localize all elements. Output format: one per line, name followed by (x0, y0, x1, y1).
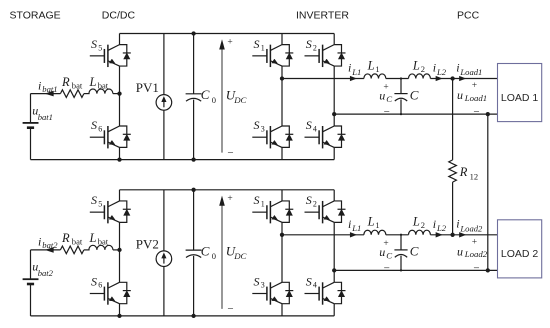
wire: L2 to LOAD 2 (430, 234, 497, 236)
annotation arrow U_DC (circuit 2) (220, 197, 224, 309)
node: battery return on bottom rail (circuit 1) (117, 157, 121, 161)
wire: between L1 and L2 (circuit 2) (386, 234, 409, 236)
svg-text:i: i (456, 60, 459, 74)
svg-text:i: i (433, 61, 436, 75)
PV current source PV2 (156, 190, 172, 316)
svg-text:S: S (254, 193, 260, 207)
inductor L_bat (circuit 2) (89, 245, 113, 250)
capacitor C0 (circuit 1) (186, 34, 202, 160)
svg-text:L2: L2 (436, 223, 447, 233)
wire: battery branch horizontal (circuit 1) (31, 93, 120, 95)
node: C0 top junction (circuit 2) (191, 188, 195, 192)
wire: + output from left leg to L1 (circuit 2) (282, 234, 364, 236)
node: return interconnect junction (circuit 1) (486, 112, 490, 116)
current arrow i_L1 (circuit 2) (350, 233, 355, 237)
svg-text:PCC: PCC (457, 10, 480, 22)
filter capacitor C (circuit 2) (394, 235, 407, 271)
label U_DC (circuit 2) (226, 244, 247, 262)
svg-text:2: 2 (421, 64, 425, 74)
label U_DC (circuit 1) (226, 87, 247, 105)
label L_2 (circuit 1) (412, 58, 425, 74)
svg-text:L2: L2 (436, 67, 447, 77)
node: C top junction (circuit 1) (400, 77, 402, 79)
svg-text:0: 0 (212, 251, 216, 261)
svg-text:−: − (227, 303, 233, 315)
inductor L1 (circuit 2) (364, 230, 386, 235)
inductor L2 (circuit 2) (409, 230, 431, 235)
transistor S5 (circuit 2) (IGBT with antiparallel diode) (90, 190, 131, 250)
wire: battery left vertical (circuit 1) (30, 94, 32, 160)
node: C0 top junction (circuit 1) (191, 31, 195, 35)
label u_bat2 (32, 260, 53, 279)
label S<sub>6</sub> for S6 (circuit 2) (91, 274, 102, 289)
svg-text:S: S (91, 193, 97, 207)
label i_L1 (circuit 2) (348, 217, 361, 233)
svg-text:INVERTER: INVERTER (296, 10, 349, 22)
wire: battery branch horizontal (circuit 2) (31, 249, 120, 251)
PV current source PV1 (156, 34, 172, 160)
current arrow i_L2 (circuit 1) (436, 77, 441, 81)
svg-text:−: − (384, 106, 390, 118)
node: C bottom junction (circuit 2) (400, 269, 402, 271)
label R_bat (circuit 1) (61, 75, 83, 91)
node: C0 bottom junction (circuit 2) (191, 314, 195, 318)
svg-text:L: L (89, 231, 97, 245)
node: return interconnect junction (circuit 2) (486, 268, 490, 272)
svg-text:L1: L1 (351, 67, 361, 77)
label u_bat1 (32, 103, 53, 122)
label R_bat (circuit 2) (61, 231, 83, 247)
label S<sub>3</sub> for S3 (circuit 1) (254, 118, 265, 133)
svg-text:R: R (61, 231, 70, 245)
node: C bottom junction (circuit 1) (400, 113, 402, 115)
svg-text:R: R (61, 75, 70, 89)
svg-text:−: − (473, 106, 479, 118)
svg-text:bat: bat (98, 80, 109, 90)
node: inverter right-leg midpoint (circuit 1) (332, 112, 336, 116)
transistor S1 (circuit 1) (IGBT with antiparallel diode) (252, 34, 293, 79)
load box LOAD 2 (498, 220, 542, 278)
label L_bat (circuit 1) (89, 75, 109, 91)
capacitor C0 (circuit 2) (186, 190, 202, 316)
label S<sub>5</sub> for S5 (circuit 2) (91, 193, 102, 208)
node: battery return on bottom rail (circuit 2) (117, 314, 121, 318)
svg-text:S: S (91, 274, 97, 288)
label S<sub>3</sub> for S3 (circuit 2) (254, 274, 265, 289)
svg-text:Load2: Load2 (464, 249, 488, 259)
label C_0 (circuit 1) (201, 87, 216, 105)
inductor L2 (circuit 1) (409, 74, 431, 79)
svg-text:S: S (306, 193, 312, 207)
node: inverter left-leg midpoint (circuit 1) (280, 76, 284, 80)
resistor R12 connecting the two PCC nodes (449, 79, 457, 235)
label S<sub>2</sub> for S2 (circuit 2) (306, 193, 317, 208)
node: C0 bottom junction (circuit 1) (191, 157, 195, 161)
transistor S1 (circuit 2) (IGBT with antiparallel diode) (252, 190, 293, 235)
current arrow i_L2 (circuit 2) (436, 233, 441, 237)
svg-text:L: L (412, 58, 420, 72)
battery u_bat1 (23, 123, 39, 128)
transistor S6 (circuit 2) (IGBT with antiparallel diode) (90, 250, 131, 316)
svg-text:i: i (348, 61, 351, 75)
svg-text:i: i (433, 217, 436, 231)
svg-text:C: C (386, 251, 392, 261)
svg-text:u: u (379, 245, 385, 259)
svg-text:3: 3 (261, 281, 265, 290)
svg-text:L: L (89, 75, 97, 89)
node: inverter right-leg midpoint (circuit 2) (332, 268, 336, 272)
svg-text:LOAD 1: LOAD 1 (501, 92, 539, 104)
svg-text:STORAGE: STORAGE (10, 10, 61, 22)
svg-text:bat2: bat2 (42, 240, 58, 250)
svg-text:R: R (459, 165, 468, 179)
svg-text:S: S (306, 118, 312, 132)
node: C top junction (circuit 2) (400, 234, 402, 236)
wire: load return interconnect between circuits (487, 114, 489, 270)
svg-text:−: − (384, 263, 390, 275)
svg-text:Load2: Load2 (459, 223, 483, 233)
label S<sub>6</sub> for S6 (circuit 1) (91, 118, 102, 133)
svg-text:S: S (254, 118, 260, 132)
svg-text:Load1: Load1 (459, 67, 482, 77)
wire: return wire right leg to LOAD 1 (334, 113, 497, 115)
svg-text:5: 5 (98, 200, 102, 209)
transistor S3 (circuit 2) (IGBT with antiparallel diode) (252, 235, 293, 316)
label C_0 (circuit 2) (201, 244, 216, 262)
node: DC/DC midpoint (circuit 2) (117, 248, 121, 252)
svg-text:1: 1 (261, 43, 265, 52)
label S<sub>1</sub> for S1 (circuit 2) (254, 193, 265, 208)
svg-text:S: S (91, 37, 97, 51)
label S<sub>2</sub> for S2 (circuit 1) (306, 37, 317, 52)
svg-text:S: S (306, 37, 312, 51)
wire: bottom DC rail (circuit 1) (31, 159, 335, 161)
label S<sub>4</sub> for S4 (circuit 1) (306, 118, 317, 133)
svg-text:bat: bat (98, 237, 109, 247)
wire: + output from left leg to L1 (circuit 1) (282, 78, 364, 80)
svg-text:PV2: PV2 (136, 237, 159, 252)
label i_L2 (circuit 1) (433, 61, 447, 77)
label i_L1 (circuit 1) (348, 61, 361, 77)
svg-text:L: L (367, 215, 375, 229)
svg-text:+: + (472, 81, 477, 91)
transistor S4 (circuit 1) (IGBT with antiparallel diode) (305, 114, 346, 160)
svg-text:i: i (348, 217, 351, 231)
svg-text:12: 12 (470, 171, 479, 181)
wire: battery left vertical (circuit 2) (30, 250, 32, 316)
svg-text:DC/DC: DC/DC (102, 10, 136, 22)
wire: between L1 and L2 (circuit 1) (386, 78, 409, 80)
svg-text:4: 4 (313, 281, 317, 290)
svg-text:L1: L1 (351, 223, 361, 233)
svg-text:u: u (379, 89, 385, 103)
label u_C (circuit 2) (379, 245, 392, 261)
label i_Load1 (456, 60, 482, 77)
label i_Load2 (456, 217, 483, 234)
label S<sub>4</sub> for S4 (circuit 2) (306, 274, 317, 289)
svg-text:1: 1 (375, 220, 379, 230)
transistor S6 (circuit 1) (IGBT with antiparallel diode) (90, 94, 131, 160)
label R_12 (459, 165, 478, 181)
filter capacitor C (circuit 1) (394, 79, 407, 115)
annotation arrow U_DC (circuit 1) (220, 41, 224, 153)
svg-text:S: S (254, 274, 260, 288)
inductor L1 (circuit 1) (364, 74, 386, 79)
svg-text:−: − (227, 147, 233, 159)
svg-text:L: L (412, 215, 420, 229)
node: PCC junction on + wire (circuit 2) (450, 233, 454, 237)
label S<sub>1</sub> for S1 (circuit 1) (254, 37, 265, 52)
svg-text:DC: DC (233, 95, 246, 105)
svg-text:+: + (472, 238, 477, 248)
svg-text:i: i (456, 217, 459, 231)
svg-text:u: u (457, 245, 463, 259)
label S<sub>5</sub> for S5 (circuit 1) (91, 37, 102, 52)
svg-text:C: C (386, 94, 392, 104)
label L_bat (circuit 2) (89, 231, 109, 247)
svg-text:i: i (38, 235, 41, 249)
resistor R_bat (circuit 2) (60, 246, 84, 254)
svg-text:bat: bat (72, 237, 83, 247)
svg-text:i: i (38, 78, 41, 92)
svg-text:S: S (254, 37, 260, 51)
svg-text:+: + (227, 194, 232, 204)
transistor S2 (circuit 2) (IGBT with antiparallel diode) (305, 190, 346, 271)
transistor S2 (circuit 1) (IGBT with antiparallel diode) (305, 34, 346, 115)
label u_Load1 (457, 88, 487, 103)
svg-text:bat1: bat1 (42, 84, 57, 94)
svg-text:L: L (367, 58, 375, 72)
svg-text:2: 2 (313, 43, 317, 52)
svg-text:LOAD 2: LOAD 2 (501, 248, 539, 260)
transistor S4 (circuit 2) (IGBT with antiparallel diode) (305, 270, 346, 316)
label i_bat1 (38, 78, 58, 94)
node: PCC junction on + wire (circuit 1) (450, 76, 454, 80)
svg-text:5: 5 (98, 43, 102, 52)
svg-text:C: C (410, 244, 419, 259)
wire: bottom DC rail (circuit 2) (31, 315, 335, 317)
wire: return wire right leg to LOAD 2 (334, 269, 497, 271)
svg-text:0: 0 (212, 95, 216, 105)
svg-text:C: C (410, 87, 419, 102)
svg-text:6: 6 (98, 281, 102, 290)
svg-text:S: S (91, 118, 97, 132)
label L_1 (circuit 1) (367, 58, 380, 74)
wire: top DC rail (circuit 2) (120, 189, 335, 191)
svg-text:+: + (227, 38, 232, 48)
svg-text:3: 3 (261, 124, 265, 133)
label L_1 (circuit 2) (367, 215, 380, 231)
label u_Load2 (457, 245, 488, 260)
node: inverter left-leg midpoint (circuit 2) (280, 233, 284, 237)
battery u_bat2 (23, 279, 39, 284)
svg-text:bat1: bat1 (38, 112, 53, 122)
svg-text:1: 1 (375, 64, 379, 74)
current arrow i_L1 (circuit 1) (350, 77, 355, 81)
resistor R_bat (circuit 1) (60, 90, 84, 98)
label i_bat2 (38, 235, 58, 251)
svg-text:S: S (306, 274, 312, 288)
transistor S3 (circuit 1) (IGBT with antiparallel diode) (252, 79, 293, 160)
inductor L_bat (circuit 1) (89, 89, 113, 94)
current arrow i_bat1 (46, 91, 53, 95)
svg-text:DC: DC (233, 251, 246, 261)
svg-text:1: 1 (261, 200, 265, 209)
svg-text:6: 6 (98, 124, 102, 133)
svg-text:Load1: Load1 (464, 93, 488, 103)
svg-text:2: 2 (421, 220, 425, 230)
label i_L2 (circuit 2) (433, 217, 447, 233)
current arrow i_Load1 (460, 77, 465, 81)
svg-text:PV1: PV1 (136, 80, 159, 95)
node: DC/DC midpoint (circuit 1) (117, 91, 121, 95)
current arrow i_Load2 (460, 233, 465, 237)
svg-text:C: C (201, 244, 210, 259)
wire: L2 to LOAD 1 (430, 78, 497, 80)
svg-text:2: 2 (313, 200, 317, 209)
svg-text:u: u (457, 88, 463, 102)
transistor S5 (circuit 1) (IGBT with antiparallel diode) (90, 34, 131, 94)
wire: top DC rail (circuit 1) (120, 33, 335, 35)
current arrow i_bat2 (46, 248, 53, 252)
label u_C (circuit 1) (379, 89, 392, 105)
svg-text:bat2: bat2 (38, 268, 54, 278)
svg-text:4: 4 (313, 124, 317, 133)
load box LOAD 1 (498, 64, 542, 122)
label L_2 (circuit 2) (412, 215, 425, 231)
svg-text:bat: bat (72, 80, 83, 90)
svg-text:C: C (201, 87, 210, 102)
svg-text:−: − (473, 262, 479, 274)
